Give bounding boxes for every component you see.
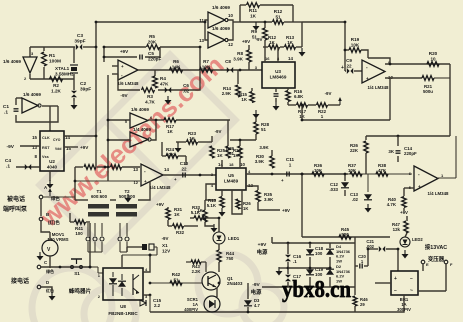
svg-text:S1: S1 (74, 271, 80, 276)
R6 value (172, 59, 181, 69)
wire (205, 222, 214, 226)
-9V R23 (215, 129, 222, 134)
capacitor C19 (306, 269, 314, 275)
wire (108, 139, 130, 141)
svg-text:12: 12 (134, 180, 139, 185)
wire (75, 199, 88, 201)
junction c10 (199, 174, 202, 177)
wire (218, 218, 220, 232)
resistor R17b (297, 103, 308, 107)
pin 11 (199, 18, 204, 23)
svg-text:.033: .033 (329, 187, 338, 192)
pin 13c (133, 167, 138, 172)
wire (240, 4, 246, 6)
svg-text:1K: 1K (197, 208, 203, 213)
svg-text:XTAL1: XTAL1 (55, 66, 70, 71)
wire (260, 4, 293, 6)
wire (287, 88, 289, 90)
node junction (344, 173, 347, 176)
capacitor C9 (347, 68, 353, 74)
svg-text:X1: X1 (162, 243, 168, 248)
pwr arrow r22 (338, 97, 342, 105)
wire (397, 156, 399, 162)
svg-text:51: 51 (275, 14, 281, 19)
svg-text:2N4403: 2N4403 (227, 281, 243, 286)
inverter U1-d (208, 32, 228, 48)
svg-text:22: 22 (181, 166, 187, 171)
ground U3 (273, 102, 280, 111)
ground R13c (219, 208, 226, 217)
svg-text:10: 10 (228, 13, 233, 18)
svg-text:+: + (144, 179, 147, 184)
svg-text:ybx8.cn: ybx8.cn (282, 277, 351, 303)
wire (177, 142, 179, 144)
pin 18 (229, 162, 234, 167)
svg-text:R4: R4 (160, 76, 166, 81)
svg-text:1K: 1K (174, 212, 180, 217)
resistor R21 (422, 76, 434, 81)
svg-text:R7: R7 (203, 59, 209, 64)
svg-text:R3: R3 (147, 94, 153, 99)
svg-text:C4: C4 (5, 158, 11, 164)
resistor R29 (238, 146, 242, 158)
LED LED2 (400, 237, 410, 247)
resistor R8 (247, 50, 252, 62)
U6-c label (368, 85, 390, 90)
ground C16 (276, 267, 283, 276)
wire (275, 98, 277, 102)
wire (112, 73, 118, 75)
svg-text:2.9K: 2.9K (222, 91, 232, 96)
resistor Rm2 (111, 165, 122, 170)
wire x1 (154, 247, 157, 255)
inverter U1-f (130, 132, 151, 147)
svg-text:CLK: CLK (42, 136, 50, 140)
svg-text:蜂鸣器片: 蜂鸣器片 (69, 287, 92, 295)
wire (70, 221, 74, 223)
39K top (259, 145, 269, 150)
pin 3d (211, 172, 214, 177)
plus C9 (341, 65, 344, 71)
wire (118, 74, 140, 90)
wire (190, 217, 194, 219)
svg-text:10K: 10K (314, 168, 323, 173)
R35 value (264, 192, 274, 202)
R43 value (192, 264, 201, 274)
ground R28t (253, 110, 260, 119)
node junction (149, 254, 152, 257)
R26b value (243, 201, 251, 211)
svg-text:-9V: -9V (120, 93, 128, 98)
svg-text:+: + (121, 64, 124, 69)
svg-text:1/6 4069: 1/6 4069 (212, 26, 230, 31)
U1-e label (131, 107, 149, 112)
IC U3 (262, 62, 295, 88)
wire (329, 243, 331, 248)
R22 value (318, 109, 327, 119)
wire (167, 220, 169, 226)
bridge rectifier BR1 (391, 271, 418, 295)
svg-text:U8: U8 (120, 304, 126, 309)
transformer T2 windings (116, 204, 137, 217)
resistor R45 (339, 235, 351, 239)
op-amp U6-b (141, 164, 163, 186)
wire (149, 255, 151, 262)
R2 value (51, 83, 61, 93)
svg-text:C1: C1 (3, 104, 9, 110)
svg-text:2: 2 (98, 294, 101, 299)
wire (237, 70, 239, 84)
pin 8 (35, 154, 38, 159)
R44 value (226, 251, 235, 261)
svg-text:3: 3 (255, 65, 258, 70)
R39 value (197, 208, 203, 213)
wire (73, 79, 75, 90)
svg-text:Vss: Vss (42, 155, 49, 159)
svg-text:2: 2 (24, 76, 27, 81)
wire (211, 311, 213, 313)
terminal A (39, 195, 43, 199)
C5 value (148, 51, 161, 61)
wire (103, 47, 105, 62)
wire (404, 187, 414, 189)
resistor R16 (286, 91, 290, 102)
pin 3c (255, 65, 258, 70)
wire (287, 282, 289, 287)
wire (168, 225, 172, 227)
wire (49, 256, 51, 268)
fengmingqi (69, 287, 92, 295)
svg-text:U2: U2 (49, 159, 55, 164)
node junction (264, 21, 267, 24)
wire (255, 134, 257, 140)
wire (176, 141, 186, 143)
svg-text:-9V: -9V (7, 144, 15, 150)
pin 10c (388, 75, 393, 80)
D2 value (336, 264, 351, 283)
svg-text:3: 3 (31, 51, 34, 56)
svg-text:LED2: LED2 (412, 237, 423, 242)
wire (227, 120, 229, 146)
svg-text:14K: 14K (172, 64, 181, 69)
op-amp U6-c (362, 60, 385, 83)
wire (345, 70, 346, 72)
svg-text:绿色: 绿色 (51, 195, 60, 202)
svg-text:14: 14 (288, 56, 293, 61)
wire (121, 255, 123, 267)
U7 label (428, 191, 450, 196)
wire (16, 166, 40, 168)
C18 value (315, 246, 324, 256)
R20 value (429, 51, 438, 61)
wire (218, 244, 220, 250)
node junction (95, 46, 98, 49)
C4 value (5, 158, 11, 170)
svg-text:1/4 LM348: 1/4 LM348 (428, 191, 450, 196)
pin 10 (228, 13, 233, 18)
wire (211, 136, 213, 142)
wire to q1 (150, 282, 202, 284)
svg-text:5.1K: 5.1K (207, 203, 217, 208)
svg-text:100: 100 (75, 231, 83, 236)
C10 value (180, 161, 189, 171)
junction p2 (309, 242, 312, 245)
pin 10b (240, 162, 245, 167)
C3 value (74, 33, 85, 45)
svg-text:51: 51 (229, 151, 234, 156)
svg-text:-: - (144, 169, 146, 175)
wire (271, 150, 273, 156)
svg-text:600:600: 600:600 (91, 194, 108, 199)
resistor R26b (236, 199, 240, 209)
wire x1b (122, 254, 157, 256)
svg-text:被电话: 被电话 (7, 195, 25, 203)
R7 value (202, 59, 211, 69)
svg-text:3.9K: 3.9K (259, 145, 269, 150)
ground D (49, 292, 56, 301)
MOV1 label (47, 232, 68, 242)
Q1 label (227, 276, 243, 286)
inverter U1-c (208, 12, 228, 28)
svg-text:FB2NB-1RBC: FB2NB-1RBC (108, 311, 138, 316)
node junction (107, 166, 110, 169)
hongse B (48, 219, 60, 226)
svg-text:C5: C5 (148, 51, 154, 56)
wire (64, 146, 78, 148)
wire (49, 232, 51, 240)
resistor R26m (226, 146, 230, 158)
wire (86, 221, 90, 223)
ground LED2 (402, 250, 409, 259)
T1 name (91, 189, 108, 199)
wire (367, 249, 369, 266)
wire loop under U5 (232, 190, 242, 214)
R32 value (176, 230, 185, 235)
C15 value (153, 298, 162, 308)
R17 value (166, 124, 175, 134)
resistor R26k (364, 141, 368, 153)
-9V left (7, 144, 15, 150)
svg-text:100: 100 (315, 251, 323, 256)
capacitor C13 (364, 194, 372, 200)
R31 value (174, 207, 183, 217)
U6-a label (118, 81, 140, 86)
wire (301, 105, 303, 120)
resistor R37 (350, 172, 362, 176)
wire (365, 136, 367, 140)
wire (263, 46, 268, 48)
wire r43 (186, 262, 206, 272)
R46 value (360, 297, 368, 307)
svg-text:.1: .1 (293, 259, 297, 264)
wire u8 in (90, 267, 103, 273)
transformer T1 windings (88, 204, 109, 217)
svg-text:R32: R32 (176, 230, 185, 235)
capacitor C21 (379, 246, 385, 252)
pin 13b (199, 38, 204, 43)
svg-text:220pF: 220pF (404, 151, 417, 156)
svg-text:3K: 3K (388, 149, 394, 154)
wire (445, 264, 447, 291)
wire (328, 104, 340, 106)
wire (329, 257, 331, 268)
resistor R4 (153, 76, 158, 88)
bus wire left vertical 2 (107, 75, 109, 181)
wire (230, 139, 256, 141)
wire (16, 106, 58, 122)
plus C10 (174, 177, 177, 182)
resistor R3 (142, 88, 155, 93)
+9V R47 (400, 210, 408, 215)
wire (83, 46, 96, 48)
resistor R41 (75, 220, 86, 224)
duan hujiao (3, 205, 28, 213)
pin 14d (218, 162, 223, 167)
pin 14c (164, 167, 169, 172)
R8 value (233, 51, 243, 61)
wire (277, 47, 279, 62)
svg-text:+9V: +9V (120, 49, 129, 54)
wire (112, 65, 118, 67)
svg-text:100M: 100M (49, 59, 61, 65)
wire (39, 251, 41, 253)
junction rm (104, 166, 107, 169)
wire (198, 141, 212, 143)
wire (403, 208, 405, 211)
terminal F (444, 260, 448, 264)
svg-text:1: 1 (321, 114, 324, 119)
dianyuan1 (257, 248, 268, 256)
wire (354, 70, 362, 72)
wire (74, 167, 76, 200)
pin 4c (145, 267, 148, 272)
svg-text:4: 4 (145, 267, 148, 272)
R21 value (423, 84, 433, 94)
resistor R46 (353, 296, 357, 306)
node junction (95, 21, 98, 24)
junction p3 (287, 267, 290, 270)
wire (287, 102, 289, 105)
wire (258, 202, 280, 210)
R11 value (249, 8, 258, 18)
capacitor C6 (165, 87, 171, 93)
resistor R6 (170, 68, 183, 73)
wire (43, 47, 45, 51)
jie 13VAC (425, 243, 447, 251)
svg-text:电源: 电源 (251, 288, 262, 296)
long vertical right of U5 (301, 174, 303, 237)
svg-text:1/6 4069: 1/6 4069 (131, 107, 149, 112)
pin 16 (265, 56, 270, 61)
bianyaqi (428, 255, 445, 263)
svg-text:(红)色: (红)色 (48, 219, 60, 226)
capacitor C7 (274, 94, 279, 96)
node junction (247, 311, 250, 314)
C14 value (404, 146, 417, 156)
wire (279, 267, 288, 269)
svg-text:-: - (418, 172, 420, 178)
wire (227, 20, 233, 40)
svg-text:接13VAC: 接13VAC (425, 243, 447, 251)
wire (163, 174, 216, 176)
C12 value (329, 182, 338, 192)
resistor R15 (250, 92, 254, 103)
svg-text:LED1: LED1 (228, 236, 240, 241)
node junction (344, 21, 347, 24)
+9V opamp1 (120, 49, 129, 54)
pin 15 (32, 135, 37, 140)
wire (29, 74, 31, 79)
svg-text:C11: C11 (286, 157, 295, 162)
resistor R35 (256, 191, 260, 202)
wire (287, 262, 289, 274)
wire (296, 46, 302, 48)
wire (364, 265, 368, 267)
op-amp U6-a (118, 60, 138, 80)
capacitor C18 (306, 249, 314, 255)
capacitor C1 (14, 109, 19, 111)
svg-text:.02: .02 (352, 197, 359, 202)
wire u8 down (149, 295, 151, 312)
R13 value (286, 35, 295, 45)
IC U5 (216, 168, 246, 190)
R41 value (75, 226, 84, 236)
T2 name (119, 189, 136, 199)
svg-text:红色: 红色 (46, 287, 54, 293)
wire right (390, 63, 450, 65)
D3 label (254, 298, 260, 308)
svg-text:13: 13 (199, 38, 204, 43)
-9V rail (262, 286, 330, 288)
wire (233, 21, 240, 23)
svg-text:1/6 4069: 1/6 4069 (212, 5, 230, 10)
wire (264, 40, 266, 62)
wire (20, 145, 40, 147)
svg-text:U5: U5 (228, 173, 234, 178)
wire (30, 46, 75, 48)
decorative grey logo (32, 55, 284, 322)
node junction (204, 21, 207, 24)
wire (184, 225, 198, 227)
wire (73, 47, 75, 63)
svg-text:−: − (394, 288, 397, 294)
R5 value (148, 34, 157, 44)
-9V r22 (325, 91, 332, 96)
capacitor C16 (285, 255, 291, 261)
svg-text:RST: RST (42, 146, 50, 150)
resistor R38 (376, 172, 388, 176)
pin 2c (98, 294, 101, 299)
pin 3c2 (145, 294, 148, 299)
R13c value (207, 198, 217, 208)
wire (302, 21, 345, 23)
pin 9 (388, 60, 391, 65)
wire (64, 135, 96, 137)
svg-text:+: + (394, 276, 397, 282)
junction p5 (329, 267, 332, 270)
LED LED1 (213, 232, 225, 244)
pin 15b (66, 146, 71, 151)
node junction (95, 135, 98, 138)
wire (246, 186, 258, 190)
wire (240, 21, 272, 23)
pin 13 (32, 145, 37, 150)
node junction (103, 56, 106, 59)
R38 value (378, 163, 387, 173)
R24 value (166, 147, 175, 157)
op-amp U1-b inverter (22, 98, 41, 113)
wire (308, 104, 316, 106)
